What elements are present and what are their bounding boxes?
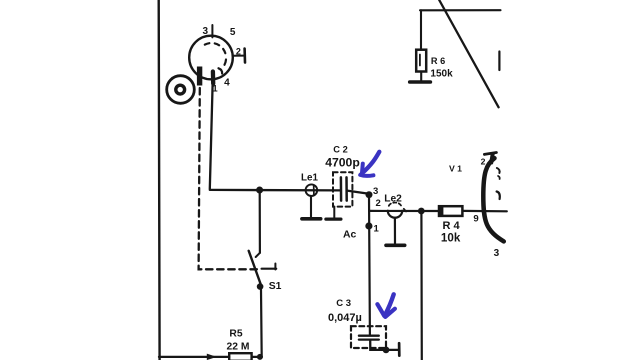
wire: R4 to V1 grid [463, 210, 507, 213]
wire: S1 down to bottom bus [260, 290, 263, 357]
svg-text:V 1: V 1 [449, 164, 462, 174]
ground stem below R6 [420, 72, 422, 81]
capacitor C2 shield box (dashed) [333, 172, 352, 206]
resistor R5 body [229, 353, 251, 360]
switch S1 moving contact node [257, 283, 264, 290]
annotation: blue arrow pointing at C2 [360, 152, 379, 176]
resistor R6 body [416, 50, 426, 72]
svg-text:2: 2 [481, 156, 486, 166]
wire: C3 bottom lead [370, 340, 399, 350]
svg-text:S1: S1 [269, 281, 282, 292]
svg-text:22 M: 22 M [227, 342, 250, 353]
svg-text:2: 2 [375, 198, 380, 209]
svg-text:R5: R5 [229, 329, 242, 340]
tube V1 pin 2 top bar [484, 153, 496, 155]
svg-text:150k: 150k [430, 68, 453, 79]
wire: left vertical bus [157, 0, 160, 360]
capacitor C2 plates [340, 177, 343, 200]
socket contact dashes (inner pin ring) [205, 43, 226, 56]
svg-text:3: 3 [203, 26, 209, 37]
annotation: blue arrow pointing at C3 [377, 294, 395, 317]
wire: diagonal crop line [439, 0, 498, 107]
wire: short stub right of R6 [498, 52, 500, 71]
svg-text:4: 4 [224, 77, 230, 88]
wire: bottom bus left of R5 [159, 356, 229, 358]
pin a contact stub [197, 67, 202, 86]
pin 2 lead [233, 55, 243, 57]
junction node bottom [257, 354, 263, 360]
pin 2 terminal bar [243, 49, 246, 63]
connector Le1 base bar [302, 217, 321, 221]
wire: bottom bus right of R5 [252, 356, 262, 358]
svg-text:4700p: 4700p [325, 156, 360, 170]
connector Le2 cup [388, 211, 402, 218]
svg-text:3: 3 [373, 186, 378, 197]
capacitor C2 shield base bar [326, 218, 341, 221]
svg-text:R 6: R 6 [431, 56, 445, 66]
node a marker (circled a) [167, 76, 195, 104]
svg-text:10k: 10k [441, 232, 461, 245]
connector Le1 stem [310, 196, 312, 217]
node 3 (jack contact) [366, 191, 373, 198]
resistor R4 body [439, 206, 462, 216]
wire: C2 to node 3 [347, 191, 368, 194]
svg-text:3: 3 [494, 248, 500, 259]
svg-text:5: 5 [230, 27, 236, 38]
svg-text:Le1: Le1 [301, 172, 318, 183]
switch S1 blade [249, 251, 262, 286]
wire: node 1 down to C3 [368, 211, 371, 335]
svg-text:C 3: C 3 [336, 298, 351, 309]
wire: top bus corner down to R6 [420, 10, 422, 49]
wire: node 3 down to tip line [368, 195, 370, 211]
tube socket envelope (valve base top view) [189, 36, 233, 80]
wire: horizontal run to Le2 and R4 [369, 210, 439, 212]
tube V1 grid dashes [497, 168, 500, 173]
pin 1 contact stub [211, 72, 216, 84]
current direction arrowhead [207, 354, 217, 360]
tube V1 envelope arc (partial) [483, 158, 504, 241]
junction node (to S1) [256, 187, 263, 194]
pin 3 lead [211, 25, 213, 37]
connector Le1 bush [306, 184, 318, 196]
capacitor C3 shield box (dashed) [351, 326, 386, 348]
capacitor C3 plates [359, 335, 379, 337]
connector Le2 dashed top arc [389, 203, 401, 206]
wire: main horizontal run to Le1 / C2 [210, 189, 340, 192]
wire: S1 linkage contact segment [262, 268, 277, 270]
connector Le2 side tick [404, 209, 406, 212]
svg-text:Ac: Ac [343, 229, 357, 240]
wire: junction down to switch S1 [259, 190, 261, 253]
svg-text:1: 1 [373, 223, 379, 234]
wire: junction to R4 [424, 210, 439, 212]
svg-text:0,047µ: 0,047µ [328, 312, 362, 324]
wire: pin 1 down to corner [210, 81, 213, 189]
wire: junction down to bottom edge [420, 211, 423, 360]
connector Le2 base bar [386, 244, 405, 248]
node 1 (jack contact) [365, 222, 372, 229]
terminal bar right of C3 [398, 343, 401, 355]
wire: top bus [420, 9, 501, 11]
junction node at C3 output [383, 347, 390, 354]
svg-text:R 4: R 4 [442, 220, 460, 232]
ground bar [410, 80, 431, 84]
capacitor C2 shield stem [333, 207, 335, 218]
connector Le2 stem [394, 218, 396, 244]
svg-text:2: 2 [236, 46, 241, 56]
wire: dashed lead from pin a down and right to S1 linkage [199, 88, 258, 269]
junction node (Ae line / R4) [418, 208, 425, 215]
svg-text:C 2: C 2 [333, 145, 347, 155]
svg-text:9: 9 [473, 213, 478, 224]
